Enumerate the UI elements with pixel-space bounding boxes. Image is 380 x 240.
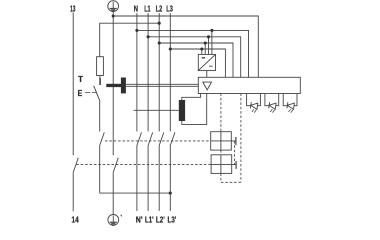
relay box 1 xyxy=(211,132,232,150)
actuator shaft through relay box 1 xyxy=(220,132,222,150)
svg-text:L3': L3' xyxy=(168,215,177,224)
test resistor xyxy=(97,57,104,76)
switch blade on earth conductor xyxy=(113,158,118,173)
wire: coil top to electronics module xyxy=(182,94,201,101)
linkage through relay box 2 to stop xyxy=(211,164,236,166)
mechanical linkage upper (dashed) xyxy=(105,140,211,142)
junction dot xyxy=(204,41,207,44)
electronics module box xyxy=(198,77,300,93)
power supply converter box xyxy=(198,54,215,70)
test button blade xyxy=(94,86,100,102)
wire: L3 conductor lower xyxy=(169,146,171,211)
svg-text:14: 14 xyxy=(72,216,80,225)
svg-text:L1: L1 xyxy=(144,4,151,13)
wire: earth conductor lower xyxy=(112,173,114,215)
switch blade L3 xyxy=(170,132,175,145)
dashed actuator loop right xyxy=(240,94,242,183)
switch blade N xyxy=(137,132,142,145)
svg-text:13: 13 xyxy=(70,4,76,13)
junction dot on L3' xyxy=(169,192,172,195)
wire: drop from L3 rail to power supply xyxy=(201,49,203,54)
wire: L3 conductor upper xyxy=(169,13,171,131)
wire: drop from L1 rail to power supply xyxy=(208,37,210,55)
svg-text:E: E xyxy=(78,89,83,98)
wire: N tap rail xyxy=(137,30,249,77)
junction dot xyxy=(207,35,210,38)
wire: coil left lead xyxy=(134,109,179,111)
mechanical linkage lower (dashed) xyxy=(76,164,211,166)
wire: L1 conductor lower xyxy=(147,146,149,211)
wire: L3 tap rail xyxy=(170,49,225,77)
dashed link between stops xyxy=(234,141,236,165)
wire: drop from L2 rail to power supply xyxy=(204,43,206,54)
svg-text:L2': L2' xyxy=(156,215,165,224)
earth terminal top (PE circle) xyxy=(108,1,119,12)
dashed actuator loop left xyxy=(220,94,222,183)
wire: 13 line upper xyxy=(72,12,74,155)
junction dot on earth conductor xyxy=(112,14,115,17)
actuator shaft through relay box 2 xyxy=(220,155,222,174)
linkage through relay box 1 to stop xyxy=(211,140,236,142)
wire: L2 conductor upper xyxy=(158,13,160,131)
wire: L2 conductor lower xyxy=(158,146,160,211)
trip coil (black) xyxy=(179,100,185,121)
LED D3 xyxy=(283,94,297,113)
wire: test resistor tap to L2 xyxy=(100,23,160,57)
test button fixed contact xyxy=(99,78,101,85)
wire: earth tap to electronics (top rail) xyxy=(113,16,258,77)
earth terminal bottom (PE circle with prime) xyxy=(108,215,122,226)
wire: coil bottom to electronics module xyxy=(182,94,207,125)
junction dot xyxy=(200,47,203,50)
junction dot test tap on L2 xyxy=(158,22,161,25)
junction dot L3 tap xyxy=(169,47,172,50)
svg-text:N: N xyxy=(134,4,138,13)
wire: N conductor upper xyxy=(136,13,138,131)
wire: 13 line lower xyxy=(72,173,74,212)
wire: L1 tap rail xyxy=(148,37,241,78)
stop bar of relay 2 xyxy=(235,161,237,169)
wire: L1 conductor upper xyxy=(147,13,149,131)
switch blade on 13 line xyxy=(73,158,78,173)
svg-text:L3: L3 xyxy=(166,4,173,13)
test pole contact blade xyxy=(100,132,105,145)
junction dot N tap xyxy=(135,29,138,32)
svg-text:L1': L1' xyxy=(145,215,154,224)
relay box 2 xyxy=(211,155,232,174)
wire: drop from N rail to power supply xyxy=(211,30,213,54)
switch blade L1 xyxy=(148,132,153,145)
svg-text:L2: L2 xyxy=(156,4,163,13)
wire: test line to L3' xyxy=(100,192,171,194)
wire: earth conductor upper xyxy=(112,12,114,156)
amplifier triangle symbol xyxy=(203,82,212,90)
junction dot L1 tap xyxy=(147,35,150,38)
switch blade L2 xyxy=(159,132,164,145)
wire: CT secondary pair to electronics xyxy=(126,84,198,86)
CT core bar (horizontal) xyxy=(106,84,122,87)
wire: test line to pole contact xyxy=(99,102,101,132)
CT core bar (vertical) xyxy=(121,78,126,94)
junction dot xyxy=(210,29,213,32)
wire: N conductor lower xyxy=(136,146,138,211)
wire: test line lower xyxy=(99,146,101,194)
dashed actuator loop bottom xyxy=(221,181,241,183)
svg-text:T: T xyxy=(78,75,83,84)
wire: L2 tap rail xyxy=(159,43,233,77)
wire: power supply output to electronics module xyxy=(206,71,208,78)
stop bar of relay 1 xyxy=(235,137,237,145)
wire: resistor to test button xyxy=(99,76,101,79)
svg-text:N': N' xyxy=(136,215,143,224)
dashed actuator line from E to test button xyxy=(85,92,97,94)
LED D2 xyxy=(265,94,279,113)
LED D1 xyxy=(247,94,261,113)
junction dot L2 tap xyxy=(158,41,161,44)
